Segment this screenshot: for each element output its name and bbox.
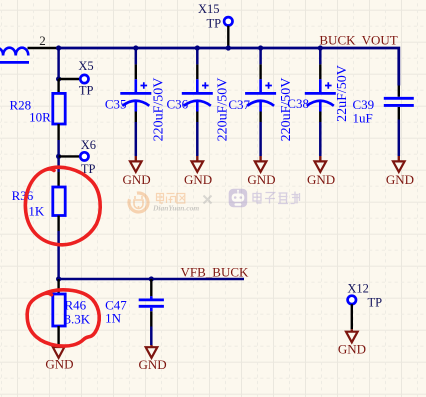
- svg-text:GND: GND: [386, 172, 414, 187]
- svg-text:C37: C37: [228, 97, 250, 112]
- svg-text:220uF/50V: 220uF/50V: [152, 78, 167, 142]
- svg-text:X12: X12: [347, 282, 369, 296]
- node junction C37: [258, 45, 263, 50]
- ground below C47: [139, 345, 167, 372]
- watermark x separator: [204, 196, 212, 204]
- resistor R28: [10, 79, 66, 140]
- svg-text:GND: GND: [123, 172, 151, 187]
- testpoint X6: [59, 138, 96, 176]
- svg-text:R46: R46: [65, 298, 87, 313]
- svg-text:22uF/50V: 22uF/50V: [335, 65, 350, 122]
- svg-text:TP: TP: [368, 295, 383, 309]
- svg-text:1K: 1K: [28, 203, 45, 218]
- svg-text:GND: GND: [247, 172, 275, 187]
- capacitor C35: [105, 49, 167, 156]
- node junction VFB at C47: [149, 276, 154, 281]
- svg-text:1N: 1N: [105, 310, 122, 325]
- svg-text:GND: GND: [45, 356, 73, 371]
- testpoint X15: [198, 2, 233, 47]
- node junction X6 tap: [56, 154, 61, 159]
- svg-text:BUCK: BUCK: [319, 32, 356, 47]
- resistor R36: [12, 172, 66, 231]
- watermark robot badge: [229, 189, 248, 208]
- capacitor C39: [353, 86, 414, 157]
- watermark text dianzixingqiu: [253, 192, 300, 204]
- capacitor C47: [105, 279, 164, 345]
- svg-text:X6: X6: [81, 138, 96, 152]
- watermark text 电源网: [157, 194, 185, 204]
- node junction VFB at R46: [56, 276, 61, 281]
- svg-text:C35: C35: [105, 97, 127, 112]
- testpoint X5: [59, 59, 94, 97]
- svg-text:GND: GND: [307, 172, 335, 187]
- annotation red circle around R36: [25, 167, 100, 245]
- svg-text:C38: C38: [287, 96, 309, 111]
- wire R28 to X6 node to R36: [57, 140, 60, 172]
- wire VFB_BUCK: [59, 278, 244, 281]
- node junction X15: [226, 45, 231, 50]
- svg-text:C36: C36: [167, 97, 189, 112]
- node junction C38: [318, 45, 323, 50]
- annotation red circle around R46: [27, 290, 99, 346]
- svg-text:2: 2: [39, 33, 46, 48]
- svg-text:TP: TP: [207, 17, 222, 31]
- node junction C36: [195, 45, 200, 50]
- svg-text:VFB_BUCK: VFB_BUCK: [181, 265, 250, 280]
- svg-text:3.3K: 3.3K: [65, 311, 91, 326]
- pin 2 of inductor: [28, 47, 59, 50]
- node junction X5 tap: [56, 76, 61, 81]
- testpoint X12: [347, 282, 382, 330]
- svg-text:GND: GND: [184, 172, 212, 187]
- capacitor C36: [167, 49, 231, 156]
- capacitor C38: [287, 49, 350, 156]
- ground below C36: [184, 156, 212, 187]
- wire BUCK_VOUT bus: [59, 48, 399, 86]
- wire R36 down to VFB node: [57, 231, 60, 279]
- inductor L (partial, cut at left edge): [0, 48, 29, 63]
- capacitor C37: [228, 49, 293, 156]
- svg-text:10R: 10R: [29, 110, 51, 125]
- ground below C39: [386, 156, 414, 187]
- ground below C37: [247, 156, 275, 187]
- svg-text:VOUT: VOUT: [362, 32, 398, 47]
- ground below R46: [45, 345, 73, 371]
- ground below X12: [338, 329, 366, 356]
- svg-text:X5: X5: [78, 59, 93, 73]
- watermark DianYuan logo ring: [125, 189, 151, 215]
- svg-text:X15: X15: [198, 2, 220, 16]
- node junction C35: [133, 45, 138, 50]
- svg-text:R36: R36: [12, 188, 34, 203]
- ground below C35: [123, 156, 151, 187]
- svg-text:GND: GND: [338, 341, 366, 356]
- node junction at bus x=58.6: [56, 45, 61, 50]
- svg-text:1uF: 1uF: [353, 110, 373, 125]
- svg-text:GND: GND: [139, 357, 167, 372]
- svg-text:R28: R28: [10, 97, 32, 112]
- svg-text:TP: TP: [79, 83, 94, 97]
- ground below C38: [307, 156, 335, 187]
- svg-text:DianYuan.com: DianYuan.com: [152, 204, 199, 213]
- resistor R46: [53, 279, 91, 345]
- wire from bus down to X5 node: [57, 48, 60, 79]
